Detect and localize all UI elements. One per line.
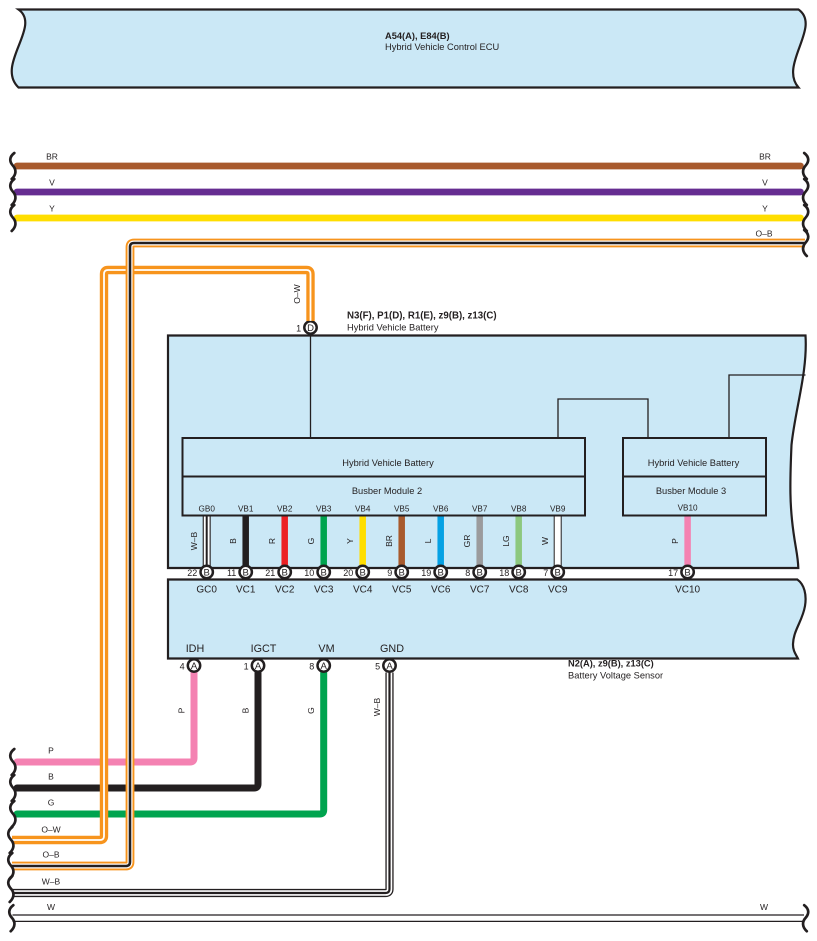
svg-text:1: 1 — [244, 661, 249, 671]
svg-text:9: 9 — [387, 568, 392, 578]
svg-text:VC1: VC1 — [236, 585, 256, 596]
svg-text:B: B — [684, 568, 690, 579]
svg-text:A: A — [386, 661, 393, 672]
svg-text:W: W — [540, 537, 550, 545]
svg-text:Y: Y — [762, 203, 768, 213]
svg-text:4: 4 — [180, 661, 185, 671]
svg-text:VC2: VC2 — [275, 585, 295, 596]
svg-text:B: B — [555, 568, 561, 579]
svg-text:A54(A), E84(B): A54(A), E84(B) — [385, 31, 450, 41]
svg-text:L: L — [423, 538, 433, 543]
svg-text:VM: VM — [318, 643, 334, 655]
svg-text:8: 8 — [309, 661, 314, 671]
svg-text:VC9: VC9 — [548, 585, 568, 596]
svg-text:B: B — [48, 772, 54, 782]
svg-text:N3(F), P1(D), R1(E), z9(B), z1: N3(F), P1(D), R1(E), z9(B), z13(C) — [347, 311, 497, 322]
svg-text:B: B — [240, 707, 250, 713]
svg-text:GC0: GC0 — [196, 585, 217, 596]
svg-text:IGCT: IGCT — [251, 643, 277, 655]
svg-text:VC5: VC5 — [392, 585, 412, 596]
svg-text:A: A — [321, 661, 328, 672]
svg-text:VB9: VB9 — [550, 505, 566, 514]
svg-text:B: B — [477, 568, 483, 579]
svg-text:21: 21 — [265, 568, 275, 578]
svg-text:G: G — [48, 798, 55, 808]
svg-text:Hybrid Vehicle Battery: Hybrid Vehicle Battery — [347, 323, 439, 333]
svg-text:VB6: VB6 — [433, 505, 449, 514]
svg-text:B: B — [228, 538, 238, 544]
svg-text:5: 5 — [375, 661, 380, 671]
svg-text:N2(A), z9(B), z13(C): N2(A), z9(B), z13(C) — [568, 659, 654, 669]
svg-text:O–W: O–W — [292, 284, 302, 303]
svg-text:19: 19 — [421, 568, 431, 578]
svg-text:B: B — [243, 568, 249, 579]
svg-text:Battery Voltage Sensor: Battery Voltage Sensor — [568, 671, 663, 681]
svg-text:22: 22 — [187, 568, 197, 578]
svg-text:7: 7 — [543, 568, 548, 578]
svg-text:VB3: VB3 — [316, 505, 332, 514]
svg-text:A: A — [255, 661, 262, 672]
svg-text:10: 10 — [304, 568, 314, 578]
svg-text:R: R — [267, 538, 277, 544]
svg-text:VC6: VC6 — [431, 585, 451, 596]
svg-text:Hybrid Vehicle Control ECU: Hybrid Vehicle Control ECU — [385, 42, 499, 52]
svg-text:Busber Module 2: Busber Module 2 — [352, 486, 422, 496]
svg-text:1: 1 — [296, 323, 301, 333]
svg-text:GR: GR — [462, 535, 472, 548]
svg-text:VB4: VB4 — [355, 505, 371, 514]
svg-text:D: D — [307, 323, 314, 334]
svg-text:VB1: VB1 — [238, 505, 254, 514]
svg-text:17: 17 — [668, 568, 678, 578]
svg-text:VC10: VC10 — [675, 585, 700, 596]
svg-text:VB5: VB5 — [394, 505, 410, 514]
svg-text:A: A — [191, 661, 198, 672]
svg-text:B: B — [399, 568, 405, 579]
svg-text:O–B: O–B — [42, 850, 59, 860]
svg-text:P: P — [48, 746, 54, 756]
svg-text:W: W — [760, 902, 768, 912]
svg-text:VB7: VB7 — [472, 505, 488, 514]
svg-text:11: 11 — [227, 568, 236, 578]
svg-text:Y: Y — [345, 538, 355, 544]
svg-text:VB10: VB10 — [678, 504, 698, 513]
svg-text:Hybrid Vehicle Battery: Hybrid Vehicle Battery — [648, 458, 740, 468]
svg-text:B: B — [360, 568, 366, 579]
svg-text:VC8: VC8 — [509, 585, 529, 596]
svg-text:Busber Module 3: Busber Module 3 — [656, 486, 726, 496]
svg-text:VB8: VB8 — [511, 505, 527, 514]
svg-text:V: V — [49, 177, 55, 187]
svg-text:G: G — [306, 707, 316, 714]
svg-text:BR: BR — [759, 151, 771, 161]
svg-text:B: B — [204, 568, 210, 579]
svg-text:B: B — [516, 568, 522, 579]
svg-text:VC7: VC7 — [470, 585, 490, 596]
svg-text:O–W: O–W — [41, 825, 60, 835]
svg-text:IDH: IDH — [186, 643, 205, 655]
svg-text:BR: BR — [384, 535, 394, 547]
svg-text:G: G — [306, 538, 316, 545]
svg-text:BR: BR — [46, 151, 58, 161]
svg-text:V: V — [762, 177, 768, 187]
svg-text:B: B — [438, 568, 444, 579]
svg-text:P: P — [176, 707, 186, 713]
svg-text:GND: GND — [380, 643, 404, 655]
svg-text:W–B: W–B — [42, 877, 61, 887]
svg-text:W–B: W–B — [189, 531, 199, 550]
svg-text:18: 18 — [499, 568, 509, 578]
svg-text:B: B — [321, 568, 327, 579]
svg-text:W–B: W–B — [372, 697, 382, 716]
svg-text:LG: LG — [501, 535, 511, 546]
svg-text:P: P — [670, 538, 680, 544]
svg-text:B: B — [282, 568, 288, 579]
svg-text:GB0: GB0 — [199, 505, 216, 514]
svg-text:Y: Y — [49, 203, 55, 213]
svg-text:VC4: VC4 — [353, 585, 373, 596]
svg-text:20: 20 — [343, 568, 353, 578]
svg-text:Hybrid Vehicle Battery: Hybrid Vehicle Battery — [342, 458, 434, 468]
svg-text:VB2: VB2 — [277, 505, 293, 514]
svg-text:8: 8 — [465, 568, 470, 578]
svg-text:O–B: O–B — [755, 229, 772, 239]
svg-text:VC3: VC3 — [314, 585, 334, 596]
svg-text:W: W — [47, 902, 55, 912]
